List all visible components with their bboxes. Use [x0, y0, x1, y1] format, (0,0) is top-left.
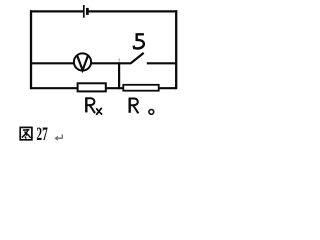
caption character tu (figure) — [20, 127, 32, 139]
label R0: letter R stem — [128, 98, 130, 112]
wire bottom: node A to resistor Rx — [31, 87, 78, 89]
voltmeter V1 circle — [74, 53, 91, 70]
wire middle branch: switch to right side — [147, 62, 176, 64]
battery long plate — [83, 5, 85, 18]
svg-text:27: 27 — [36, 124, 47, 145]
junction node B tick above wire — [118, 58, 120, 61]
paragraph return mark — [55, 134, 62, 140]
wire top-left segment (battery left lead) — [30, 10, 83, 12]
wire bottom: R0 to right side — [159, 87, 176, 89]
label Rx: subscript x — [96, 108, 102, 115]
switch label S — [134, 34, 144, 48]
battery short plate — [86, 8, 89, 15]
wire right side of loop — [175, 10, 177, 89]
wire bottom: Rx to R0 through node B — [106, 87, 124, 89]
wire top-right segment (battery right lead) — [89, 10, 178, 12]
label R0: subscript o — [149, 110, 154, 115]
switch S blade (open) — [131, 53, 144, 64]
label R0: letter R bowl and leg — [129, 99, 139, 114]
wire junction node B: middle branch to bottom branch — [118, 62, 120, 89]
resistor Rx box — [78, 83, 106, 91]
wire middle branch: node A to voltmeter — [31, 62, 74, 64]
resistor R0 box — [123, 85, 158, 91]
voltmeter V1 letter V — [77, 55, 88, 70]
label Rx: letter R bowl and leg — [85, 98, 95, 113]
label Rx: letter R stem — [85, 98, 87, 112]
wire middle branch: voltmeter to switch — [92, 62, 132, 64]
wire left side of loop — [30, 10, 32, 89]
